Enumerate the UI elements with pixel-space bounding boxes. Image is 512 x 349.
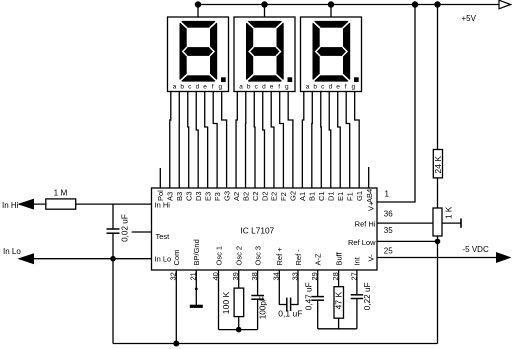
wire Osc2 pin39 to R 100K xyxy=(238,270,240,288)
svg-text:Com: Com xyxy=(172,250,181,266)
svg-text:C2: C2 xyxy=(251,191,260,201)
svg-text:A1: A1 xyxy=(298,192,307,201)
wire Buff pin28 to R 47K xyxy=(338,270,340,287)
svg-text:In Hi: In Hi xyxy=(155,200,171,209)
wire BP/Gnd pin21 to ground xyxy=(195,270,197,305)
resistor R 100K xyxy=(234,288,244,317)
wire R 47K down xyxy=(338,318,340,329)
svg-text:f: f xyxy=(278,84,280,91)
svg-text:E2: E2 xyxy=(270,192,279,201)
svg-text:In Lo: In Lo xyxy=(3,247,21,256)
wire In Lo down to bottom rail xyxy=(112,259,114,344)
capacitor C 0,47uF plate top xyxy=(312,296,325,298)
wire IC Ref Hi pin36 to P 1K wiper xyxy=(377,222,461,224)
svg-text:B2: B2 xyxy=(241,192,250,201)
svg-text:d: d xyxy=(329,84,333,91)
svg-text:G1: G1 xyxy=(355,191,364,201)
svg-text:D3: D3 xyxy=(194,191,203,201)
wire DIS1 pin g to IC pin G3 xyxy=(222,92,227,189)
svg-text:-5 VDC: -5 VDC xyxy=(463,245,489,254)
wire DIS1 pin c to IC pin C3 xyxy=(187,92,190,189)
wire DIS3 pin c to IC pin C1 xyxy=(320,92,323,189)
svg-text:F1: F1 xyxy=(346,192,355,201)
junction oscillator net xyxy=(236,327,242,333)
wire C 100pF to oscillator net xyxy=(257,299,259,329)
svg-text:Ref Low: Ref Low xyxy=(348,238,376,247)
wire Ref+ pin34 to C 0,1uF xyxy=(279,270,287,305)
capacitor C 100pF plate top xyxy=(251,295,264,297)
svg-text:e: e xyxy=(336,84,340,91)
capacitor C 0,1uF plate right xyxy=(290,298,292,311)
svg-text:100 K: 100 K xyxy=(221,291,231,314)
svg-text:E1: E1 xyxy=(336,192,345,201)
wire DIS2 pin b to IC pin B2 xyxy=(245,92,247,189)
svg-text:b: b xyxy=(247,84,251,91)
svg-text:V-: V- xyxy=(367,254,376,262)
svg-text:0,47 uF: 0,47 uF xyxy=(304,282,313,310)
wire Osc1 pin40 down xyxy=(218,270,220,330)
svg-text:1 M: 1 M xyxy=(54,189,68,198)
svg-text:Buff: Buff xyxy=(334,251,343,265)
svg-text:f: f xyxy=(212,84,214,91)
potentiometer P 1K xyxy=(433,208,442,236)
svg-text:BP/Gnd: BP/Gnd xyxy=(192,239,201,265)
7-segment display DIS2 xyxy=(234,17,295,92)
svg-text:35: 35 xyxy=(384,226,393,235)
resistor R 24K xyxy=(433,150,442,178)
wire In Hi to R 1M xyxy=(19,203,46,205)
wire DIS2 pin c to IC pin C2 xyxy=(253,92,256,189)
svg-text:A2: A2 xyxy=(232,192,241,201)
7-segment display DIS1 xyxy=(168,17,229,92)
input arrow In Hi xyxy=(19,199,34,209)
capacitor C 0,22uF plate top xyxy=(351,294,364,296)
input arrow In Lo xyxy=(19,254,34,264)
svg-text:C3: C3 xyxy=(185,191,194,201)
wire R 1M to IC In Hi xyxy=(76,203,152,205)
svg-text:a: a xyxy=(239,84,243,91)
svg-text:d: d xyxy=(262,84,266,91)
wire DIS1 pin b to IC pin B3 xyxy=(178,92,180,189)
wire IC V- pin25 to -5 VDC xyxy=(377,257,498,259)
wire DIS2 pin g to IC pin G2 xyxy=(288,92,293,189)
junction +5V/DIS2 xyxy=(261,1,267,7)
svg-text:Osc 2: Osc 2 xyxy=(235,246,244,266)
junction +5V/V+ wire xyxy=(412,1,418,7)
wire DIS1 pin e to IC pin E3 xyxy=(205,92,208,189)
resistor R 1M xyxy=(46,199,76,209)
svg-text:B1: B1 xyxy=(308,192,317,201)
svg-text:AB4: AB4 xyxy=(365,189,374,203)
capacitor C 0,02uF plate bottom xyxy=(107,232,120,234)
svg-text:g: g xyxy=(285,84,289,91)
svg-text:D2: D2 xyxy=(260,191,269,201)
capacitor C 0,47uF plate bottom xyxy=(312,299,325,301)
wire +5V rail to R 24K xyxy=(437,5,439,150)
wire Int pin27 to C 0,22uF xyxy=(356,270,358,295)
wire bottom rail xyxy=(113,343,438,345)
svg-text:Ref -: Ref - xyxy=(294,249,303,266)
wire DIS2 pin a to IC pin A2 xyxy=(236,92,237,189)
junction +5V/DIS3 xyxy=(328,1,334,7)
wire Test stub xyxy=(132,231,152,233)
svg-text:Int: Int xyxy=(353,256,362,265)
svg-text:C1: C1 xyxy=(317,191,326,201)
node BP/Gnd xyxy=(195,288,198,291)
svg-text:E3: E3 xyxy=(203,192,212,201)
svg-text:0,1 uF: 0,1 uF xyxy=(278,309,302,319)
resistor R 47K xyxy=(334,287,344,319)
wire In Hi to C 0,02uF xyxy=(112,204,114,229)
wire R 100K to oscillator net xyxy=(238,317,240,330)
capacitor C 100pF plate bottom xyxy=(251,298,264,300)
capacitor C 0,02uF plate top xyxy=(107,228,120,230)
wire R 24K to P 1K xyxy=(437,178,439,208)
svg-text:G3: G3 xyxy=(222,191,231,201)
svg-text:24 K: 24 K xyxy=(433,156,443,174)
svg-text:V+: V+ xyxy=(367,201,376,211)
wire C 0,47uF down xyxy=(317,300,319,329)
wire C 0,1uF to Ref- pin33 xyxy=(291,270,298,305)
wire DIS3 pin g to IC pin G1 xyxy=(355,92,359,189)
svg-text:F3: F3 xyxy=(213,192,222,201)
wire DIS1 pin f to IC pin F3 xyxy=(213,92,217,189)
wire pin AB4 stub xyxy=(368,167,370,188)
wire DIS3 pin b to IC pin B1 xyxy=(311,92,313,189)
svg-text:Pol: Pol xyxy=(156,190,165,201)
wire pin Pol stub xyxy=(159,168,161,188)
svg-text:a: a xyxy=(306,84,310,91)
capacitor C 0,22uF plate bottom xyxy=(351,298,364,300)
wire DIS3 pin d to IC pin D1 xyxy=(329,92,331,189)
svg-text:36: 36 xyxy=(384,209,393,218)
wire +5V to display DIS3 xyxy=(330,5,332,18)
junction +5V/R 24K xyxy=(434,1,440,7)
svg-text:A-Z: A-Z xyxy=(314,253,323,266)
IC U1 ICL7107 body xyxy=(152,188,378,270)
supply arrow -5 VDC xyxy=(497,253,511,263)
svg-text:D1: D1 xyxy=(327,191,336,201)
svg-text:g: g xyxy=(351,84,355,91)
svg-text:a: a xyxy=(173,84,177,91)
wire C 0,22uF down xyxy=(356,299,358,329)
wire DIS1 pin a to IC pin A3 xyxy=(170,92,171,189)
junction Com / bottom rail xyxy=(173,341,179,347)
svg-text:e: e xyxy=(203,84,207,91)
wire +5V rail xyxy=(198,4,500,6)
svg-text:g: g xyxy=(218,84,222,91)
wiper end bar P 1K xyxy=(460,218,462,227)
svg-text:f: f xyxy=(345,84,347,91)
wire +5V to display DIS2 xyxy=(264,5,266,18)
svg-text:47 K: 47 K xyxy=(334,292,344,310)
svg-text:Osc 3: Osc 3 xyxy=(253,246,262,266)
wire P 1K bottom down to bottom rail xyxy=(437,236,439,344)
wire Osc3 pin38 to C 100pF xyxy=(257,270,259,296)
svg-text:0,02 uF: 0,02 uF xyxy=(120,214,129,242)
wire DIS1 pin d to IC pin D3 xyxy=(196,92,198,189)
svg-text:+5V: +5V xyxy=(462,14,477,23)
svg-text:G2: G2 xyxy=(289,191,298,201)
wire +5V to display DIS1 xyxy=(197,5,199,18)
wire DIS3 pin f to IC pin F1 xyxy=(346,92,350,189)
junction Ref Low / P 1K xyxy=(435,239,441,245)
svg-text:IC L7107: IC L7107 xyxy=(241,226,275,236)
junction In Lo / C 0,02uF xyxy=(110,256,116,262)
svg-text:25: 25 xyxy=(384,247,393,256)
wire In Lo to IC xyxy=(19,258,152,260)
svg-text:1: 1 xyxy=(385,189,390,198)
svg-text:100pF: 100pF xyxy=(258,296,267,319)
svg-text:B3: B3 xyxy=(175,192,184,201)
wire DIS2 pin f to IC pin F2 xyxy=(280,92,284,189)
svg-text:F2: F2 xyxy=(279,192,288,201)
ground symbol xyxy=(190,305,203,308)
7-segment display DIS3 xyxy=(301,17,362,92)
svg-text:1 K: 1 K xyxy=(445,206,454,219)
svg-text:b: b xyxy=(313,84,317,91)
svg-text:b: b xyxy=(180,84,184,91)
wire IC Ref Low pin35 to node xyxy=(377,240,438,242)
wire oscillator bottom rail xyxy=(219,329,258,331)
svg-text:e: e xyxy=(270,84,274,91)
wire DIS3 pin e to IC pin E1 xyxy=(338,92,341,189)
capacitor C 0,1uF plate left xyxy=(286,298,288,311)
+5V supply arrow xyxy=(499,0,511,9)
wire DIS2 pin e to IC pin E2 xyxy=(271,92,274,189)
svg-text:Ref Hi: Ref Hi xyxy=(355,220,376,229)
wire DIS3 pin a to IC pin A1 xyxy=(302,92,303,189)
junction +5V/DIS1 xyxy=(195,1,201,7)
svg-text:d: d xyxy=(196,84,200,91)
wire A-Z pin29 to C 0,47uF xyxy=(317,270,319,297)
svg-text:Osc 1: Osc 1 xyxy=(214,246,223,266)
wire integrator bottom rail xyxy=(318,328,357,330)
wire IC V+ pin1 to +5V rail xyxy=(377,5,415,203)
svg-text:In Hi: In Hi xyxy=(2,201,19,210)
wire Com pin32 to bottom rail xyxy=(175,270,177,344)
wire C 0,02uF to In Lo xyxy=(112,233,114,259)
svg-text:0,22 uF: 0,22 uF xyxy=(363,282,372,310)
svg-text:Ref +: Ref + xyxy=(275,247,284,266)
wire DIS2 pin d to IC pin D2 xyxy=(263,92,265,189)
svg-text:In Lo: In Lo xyxy=(155,255,172,264)
svg-text:Test: Test xyxy=(156,232,171,241)
